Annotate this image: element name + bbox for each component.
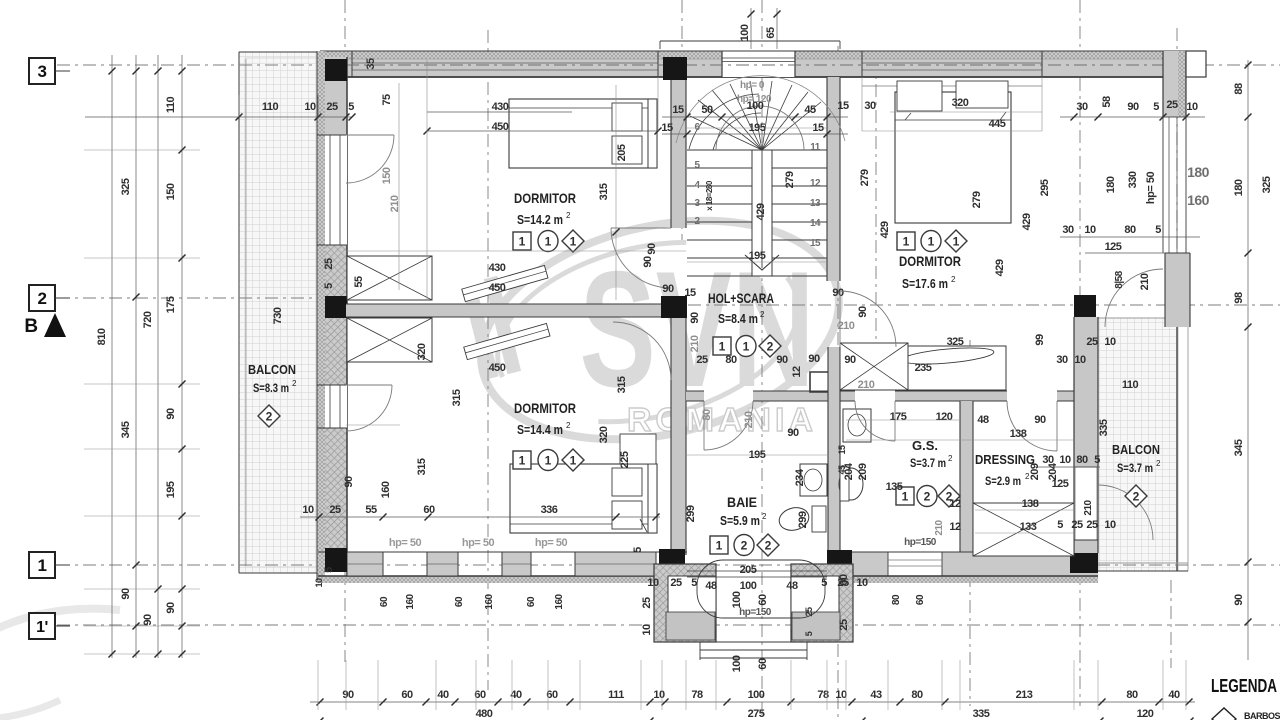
svg-text:10: 10 bbox=[641, 624, 653, 636]
svg-text:5: 5 bbox=[1155, 224, 1161, 236]
svg-text:150: 150 bbox=[381, 167, 393, 184]
svg-text:336: 336 bbox=[541, 504, 558, 516]
svg-text:35: 35 bbox=[365, 58, 377, 70]
svg-text:hp= 50: hp= 50 bbox=[1145, 172, 1157, 205]
svg-text:88: 88 bbox=[1233, 83, 1245, 95]
svg-text:80: 80 bbox=[1076, 454, 1088, 466]
svg-text:25: 25 bbox=[1166, 99, 1178, 111]
wardrobe X right bedroom bbox=[840, 343, 908, 390]
desk right bedroom bbox=[896, 346, 1006, 390]
svg-text:12: 12 bbox=[791, 366, 803, 378]
svg-text:325: 325 bbox=[1261, 176, 1273, 193]
svg-text:15: 15 bbox=[810, 238, 821, 249]
svg-text:120: 120 bbox=[1137, 708, 1154, 720]
right mid door dims bbox=[1035, 466, 1100, 468]
svg-text:45: 45 bbox=[804, 104, 816, 116]
svg-text:335: 335 bbox=[973, 708, 990, 720]
svg-text:450: 450 bbox=[489, 362, 506, 374]
svg-text:810: 810 bbox=[96, 328, 108, 345]
svg-text:DORMITOR: DORMITOR bbox=[514, 400, 576, 416]
svg-text:80: 80 bbox=[1126, 689, 1138, 701]
svg-text:315: 315 bbox=[451, 389, 463, 406]
svg-text:1: 1 bbox=[716, 539, 723, 553]
svg-text:335: 335 bbox=[1098, 419, 1110, 436]
svg-text:5: 5 bbox=[1057, 519, 1063, 531]
svg-text:hp=150: hp=150 bbox=[904, 537, 937, 548]
svg-text:S=5.9 m: S=5.9 m bbox=[720, 513, 760, 528]
top entrance dims bbox=[750, 8, 752, 49]
svg-text:430: 430 bbox=[489, 262, 506, 274]
hol dims bbox=[662, 116, 848, 118]
svg-text:5: 5 bbox=[1094, 454, 1100, 466]
svg-text:B: B bbox=[24, 316, 37, 337]
svg-text:204: 204 bbox=[1047, 462, 1059, 480]
svg-text:160: 160 bbox=[405, 593, 416, 609]
svg-text:10: 10 bbox=[653, 689, 665, 701]
svg-text:90: 90 bbox=[343, 476, 355, 488]
svg-text:90: 90 bbox=[142, 614, 154, 626]
svg-text:138: 138 bbox=[1010, 428, 1027, 440]
svg-text:429: 429 bbox=[994, 259, 1006, 276]
svg-text:100: 100 bbox=[740, 580, 757, 592]
svg-text:10: 10 bbox=[1084, 224, 1096, 236]
mid horizontal wall (between left bedrooms) bbox=[346, 304, 661, 317]
svg-text:80: 80 bbox=[1124, 224, 1136, 236]
svg-text:25: 25 bbox=[326, 101, 338, 113]
grid markers bbox=[29, 58, 55, 84]
svg-text:30: 30 bbox=[1062, 224, 1074, 236]
svg-text:8|58: 8|58 bbox=[1114, 270, 1125, 288]
svg-text:LEGENDA: LEGENDA bbox=[1211, 676, 1277, 696]
svg-text:40: 40 bbox=[437, 689, 449, 701]
svg-text:315: 315 bbox=[616, 376, 628, 393]
svg-text:175: 175 bbox=[165, 296, 177, 313]
gs fixtures bbox=[843, 409, 871, 442]
svg-text:90: 90 bbox=[689, 312, 701, 324]
svg-text:80: 80 bbox=[891, 594, 902, 605]
svg-text:90: 90 bbox=[844, 354, 856, 366]
svg-text:429: 429 bbox=[879, 221, 891, 238]
svg-text:1: 1 bbox=[519, 454, 526, 468]
svg-text:1: 1 bbox=[570, 235, 577, 249]
svg-text:320: 320 bbox=[598, 426, 610, 443]
right upper door dims bbox=[1060, 236, 1200, 238]
wall baie/gs vertical bbox=[828, 347, 840, 555]
svg-text:133: 133 bbox=[1020, 521, 1037, 533]
top exterior wall bbox=[320, 51, 1186, 59]
svg-text:180: 180 bbox=[1233, 179, 1245, 196]
svg-text:25: 25 bbox=[804, 607, 814, 617]
svg-text:10: 10 bbox=[304, 101, 316, 113]
svg-text:1: 1 bbox=[545, 454, 552, 468]
svg-text:60: 60 bbox=[379, 596, 390, 607]
svg-text:48: 48 bbox=[786, 580, 798, 592]
svg-text:2: 2 bbox=[1133, 490, 1140, 504]
svg-text:5: 5 bbox=[804, 631, 814, 636]
svg-text:330: 330 bbox=[1127, 171, 1139, 188]
porch bottom walls bbox=[654, 564, 716, 642]
svg-text:279: 279 bbox=[784, 171, 796, 188]
svg-text:195: 195 bbox=[749, 250, 766, 262]
svg-text:2: 2 bbox=[38, 289, 47, 308]
svg-text:S=14.2 m: S=14.2 m bbox=[517, 212, 563, 227]
svg-text:10: 10 bbox=[1074, 354, 1086, 366]
svg-text:320: 320 bbox=[416, 343, 428, 360]
svg-text:90: 90 bbox=[1034, 414, 1046, 426]
svg-text:2: 2 bbox=[951, 275, 956, 284]
svg-text:5: 5 bbox=[323, 567, 335, 573]
svg-text:299: 299 bbox=[685, 505, 697, 522]
svg-text:10: 10 bbox=[1186, 101, 1198, 113]
svg-text:1: 1 bbox=[902, 490, 909, 504]
svg-text:195: 195 bbox=[165, 481, 177, 498]
svg-text:160: 160 bbox=[484, 593, 495, 609]
bottom wall right part bbox=[840, 552, 1098, 576]
svg-text:60: 60 bbox=[757, 658, 769, 670]
bed bedroom3 (right) bbox=[862, 85, 1042, 87]
svg-text:135: 135 bbox=[886, 481, 903, 493]
svg-text:10: 10 bbox=[1104, 519, 1116, 531]
svg-text:279: 279 bbox=[971, 191, 983, 208]
svg-text:429: 429 bbox=[1021, 213, 1033, 230]
svg-text:80: 80 bbox=[911, 689, 923, 701]
svg-text:1: 1 bbox=[928, 235, 935, 249]
svg-text:2: 2 bbox=[765, 539, 772, 553]
svg-text:90: 90 bbox=[1127, 101, 1139, 113]
svg-text:hp= 0: hp= 0 bbox=[740, 80, 765, 91]
svg-text:25: 25 bbox=[641, 597, 653, 609]
columns interior left bbox=[663, 57, 687, 80]
svg-text:2: 2 bbox=[741, 539, 748, 553]
svg-text:BALCON: BALCON bbox=[1112, 442, 1160, 457]
svg-text:60: 60 bbox=[401, 689, 413, 701]
interior wall left vertical bbox=[671, 80, 686, 228]
svg-text:209: 209 bbox=[857, 463, 869, 480]
svg-text:110: 110 bbox=[1122, 379, 1139, 391]
svg-text:90: 90 bbox=[165, 602, 177, 614]
svg-text:234: 234 bbox=[794, 468, 806, 486]
svg-text:60: 60 bbox=[757, 594, 769, 606]
svg-text:100: 100 bbox=[731, 655, 743, 672]
svg-text:225: 225 bbox=[619, 451, 631, 468]
svg-text:13: 13 bbox=[810, 198, 821, 209]
svg-text:90: 90 bbox=[642, 256, 654, 268]
svg-text:30: 30 bbox=[1076, 101, 1088, 113]
svg-text:25: 25 bbox=[670, 577, 682, 589]
svg-text:BAIE: BAIE bbox=[727, 494, 757, 510]
svg-text:1': 1' bbox=[36, 619, 48, 636]
svg-text:78: 78 bbox=[691, 689, 703, 701]
svg-text:1: 1 bbox=[903, 235, 910, 249]
svg-text:210: 210 bbox=[934, 519, 945, 535]
svg-text:2: 2 bbox=[767, 340, 774, 354]
svg-text:150: 150 bbox=[165, 183, 177, 200]
svg-text:15: 15 bbox=[837, 445, 847, 455]
svg-text:120: 120 bbox=[936, 411, 953, 423]
left dim chains bbox=[111, 55, 113, 658]
svg-text:5: 5 bbox=[348, 101, 354, 113]
svg-text:345: 345 bbox=[1233, 439, 1245, 456]
svg-text:25: 25 bbox=[696, 354, 708, 366]
svg-text:14: 14 bbox=[810, 218, 821, 229]
svg-text:75: 75 bbox=[381, 94, 393, 106]
svg-text:235: 235 bbox=[915, 362, 932, 374]
svg-text:x 18=280: x 18=280 bbox=[705, 180, 714, 211]
svg-text:DORMITOR: DORMITOR bbox=[514, 190, 576, 206]
svg-text:10: 10 bbox=[314, 578, 324, 588]
svg-text:204: 204 bbox=[843, 462, 855, 480]
svg-text:S=3.7 m: S=3.7 m bbox=[910, 456, 946, 470]
svg-text:720: 720 bbox=[142, 311, 154, 328]
svg-text:10: 10 bbox=[835, 689, 847, 701]
stairs bbox=[687, 149, 827, 151]
svg-text:1: 1 bbox=[519, 235, 526, 249]
svg-text:48: 48 bbox=[705, 580, 717, 592]
svg-text:3: 3 bbox=[38, 62, 47, 81]
svg-text:10: 10 bbox=[1104, 336, 1116, 348]
left exterior wall bbox=[317, 51, 325, 580]
svg-text:10: 10 bbox=[647, 577, 659, 589]
svg-text:100: 100 bbox=[739, 24, 751, 41]
svg-text:315: 315 bbox=[598, 183, 610, 200]
svg-text:180: 180 bbox=[1187, 164, 1210, 180]
svg-text:10: 10 bbox=[1059, 454, 1071, 466]
svg-text:210: 210 bbox=[1139, 273, 1151, 290]
svg-text:43: 43 bbox=[870, 689, 882, 701]
svg-text:2: 2 bbox=[762, 512, 767, 521]
svg-text:110: 110 bbox=[262, 101, 279, 113]
right edge dim chain bbox=[1247, 60, 1249, 660]
svg-text:50: 50 bbox=[701, 104, 713, 116]
top right dims bbox=[1060, 116, 1205, 118]
svg-text:480: 480 bbox=[476, 708, 493, 720]
svg-text:hp= 50: hp= 50 bbox=[535, 537, 568, 549]
balcony left tile bbox=[239, 52, 317, 573]
svg-text:90: 90 bbox=[857, 306, 869, 318]
svg-text:429: 429 bbox=[755, 203, 767, 220]
svg-text:2: 2 bbox=[924, 490, 931, 504]
svg-text:DORMITOR: DORMITOR bbox=[899, 253, 961, 269]
axis lines bbox=[344, 0, 346, 662]
svg-text:175: 175 bbox=[890, 411, 907, 423]
svg-text:299: 299 bbox=[797, 511, 809, 528]
svg-text:110: 110 bbox=[165, 96, 177, 113]
svg-text:2: 2 bbox=[1156, 459, 1161, 468]
svg-text:48: 48 bbox=[977, 414, 989, 426]
baie fixtures bbox=[777, 504, 812, 533]
svg-text:60: 60 bbox=[526, 596, 537, 607]
svg-text:90: 90 bbox=[808, 353, 820, 365]
svg-text:315: 315 bbox=[416, 458, 428, 475]
svg-text:160: 160 bbox=[1187, 192, 1210, 208]
svg-text:325: 325 bbox=[947, 336, 964, 348]
svg-text:275: 275 bbox=[748, 708, 765, 720]
left wall columns bbox=[325, 59, 347, 81]
nightstand bedroom2 bbox=[620, 434, 656, 464]
svg-text:1: 1 bbox=[545, 235, 552, 249]
balcony right tile bbox=[1098, 318, 1178, 571]
svg-text:12: 12 bbox=[810, 178, 821, 189]
extra extension lines rooms bbox=[398, 83, 400, 290]
svg-text:1: 1 bbox=[570, 454, 577, 468]
svg-text:11: 11 bbox=[810, 142, 821, 153]
wardrobe X dressing bbox=[973, 503, 1074, 556]
svg-text:90: 90 bbox=[120, 588, 132, 600]
svg-text:213: 213 bbox=[1016, 689, 1033, 701]
svg-text:279: 279 bbox=[859, 169, 871, 186]
svg-text:25: 25 bbox=[323, 258, 335, 270]
svg-text:2: 2 bbox=[266, 410, 273, 424]
svg-text:12: 12 bbox=[949, 498, 961, 510]
svg-text:2: 2 bbox=[948, 454, 953, 463]
svg-text:S=14.4 m: S=14.4 m bbox=[517, 422, 563, 437]
svg-text:430: 430 bbox=[492, 101, 509, 113]
svg-text:1: 1 bbox=[953, 235, 960, 249]
svg-text:S=17.6 m: S=17.6 m bbox=[902, 276, 948, 291]
svg-text:15: 15 bbox=[684, 287, 696, 299]
svg-text:hp= 50: hp= 50 bbox=[462, 537, 495, 549]
svg-text:25: 25 bbox=[838, 619, 850, 631]
door arcs bbox=[346, 135, 394, 183]
svg-text:40: 40 bbox=[1168, 689, 1180, 701]
svg-text:15: 15 bbox=[672, 104, 684, 116]
svg-text:2: 2 bbox=[292, 379, 297, 388]
svg-text:160: 160 bbox=[554, 593, 565, 609]
svg-text:99: 99 bbox=[1034, 334, 1046, 346]
wall gs/dressing vertical bbox=[960, 401, 973, 556]
stair right wall bbox=[827, 77, 840, 281]
svg-text:90: 90 bbox=[776, 354, 788, 366]
bed bedroom2 bbox=[510, 464, 657, 533]
svg-text:210: 210 bbox=[1083, 499, 1094, 515]
svg-text:BALCON: BALCON bbox=[248, 362, 296, 377]
svg-text:138: 138 bbox=[1022, 498, 1039, 510]
svg-text:30: 30 bbox=[1056, 354, 1068, 366]
right mid wall bbox=[1074, 317, 1098, 553]
svg-text:S=3.7 m: S=3.7 m bbox=[1117, 461, 1153, 475]
svg-text:hp=150: hp=150 bbox=[739, 607, 772, 618]
svg-text:730: 730 bbox=[272, 307, 284, 324]
svg-text:HOL+SCARA: HOL+SCARA bbox=[708, 290, 774, 306]
svg-text:12: 12 bbox=[949, 521, 961, 533]
svg-text:209: 209 bbox=[1029, 463, 1041, 480]
right wall upper bbox=[1163, 51, 1178, 117]
svg-text:5: 5 bbox=[323, 283, 335, 289]
horizontal wall hol/baie/gs bbox=[686, 391, 704, 401]
svg-text:5: 5 bbox=[691, 577, 697, 589]
svg-text:BARBOS: BARBOS bbox=[1244, 711, 1280, 720]
svg-text:1: 1 bbox=[38, 556, 47, 575]
svg-text:15: 15 bbox=[837, 100, 849, 112]
svg-text:S=8.3 m: S=8.3 m bbox=[253, 381, 289, 395]
svg-text:S=2.9 m: S=2.9 m bbox=[985, 474, 1021, 488]
svg-text:60: 60 bbox=[838, 574, 850, 586]
svg-text:60: 60 bbox=[915, 594, 926, 605]
svg-text:345: 345 bbox=[120, 421, 132, 438]
shelf items bbox=[462, 265, 548, 301]
svg-text:60: 60 bbox=[423, 504, 435, 516]
svg-text:180: 180 bbox=[1105, 176, 1117, 193]
svg-text:5: 5 bbox=[632, 547, 644, 553]
svg-text:30: 30 bbox=[864, 100, 876, 112]
svg-text:hp= 120: hp= 120 bbox=[737, 94, 772, 105]
svg-text:10: 10 bbox=[302, 504, 314, 516]
svg-text:25: 25 bbox=[1086, 336, 1098, 348]
svg-text:90: 90 bbox=[342, 689, 354, 701]
svg-text:80: 80 bbox=[701, 409, 713, 421]
svg-text:1: 1 bbox=[719, 340, 726, 354]
svg-text:25: 25 bbox=[1071, 519, 1083, 531]
svg-text:hp= 50: hp= 50 bbox=[389, 537, 422, 549]
svg-text:90: 90 bbox=[165, 408, 177, 420]
svg-text:450: 450 bbox=[489, 282, 506, 294]
svg-text:320: 320 bbox=[952, 97, 969, 109]
bottom dim rows bbox=[310, 701, 1195, 703]
svg-text:2: 2 bbox=[760, 310, 765, 319]
svg-text:25: 25 bbox=[329, 504, 341, 516]
svg-text:2: 2 bbox=[566, 211, 571, 220]
svg-text:90: 90 bbox=[1233, 594, 1245, 606]
svg-text:325: 325 bbox=[120, 178, 132, 195]
svg-text:58: 58 bbox=[1101, 96, 1113, 108]
svg-text:111: 111 bbox=[608, 689, 624, 701]
svg-text:DRESSING: DRESSING bbox=[975, 452, 1035, 467]
svg-text:210: 210 bbox=[689, 335, 701, 352]
svg-text:90: 90 bbox=[832, 287, 844, 299]
svg-text:55: 55 bbox=[365, 504, 377, 516]
svg-text:S=8.4 m: S=8.4 m bbox=[718, 311, 758, 326]
watermark partial corner bbox=[0, 609, 120, 720]
svg-text:100: 100 bbox=[748, 689, 765, 701]
svg-text:5: 5 bbox=[821, 577, 827, 589]
svg-text:210: 210 bbox=[743, 411, 755, 428]
svg-text:100: 100 bbox=[731, 591, 743, 608]
svg-text:98: 98 bbox=[1233, 292, 1245, 304]
svg-text:205: 205 bbox=[740, 564, 757, 576]
svg-text:90: 90 bbox=[646, 243, 658, 255]
wardrobe X boxes bedroom1 bbox=[347, 256, 432, 300]
svg-text:445: 445 bbox=[989, 118, 1006, 130]
svg-text:10: 10 bbox=[856, 577, 868, 589]
svg-text:90: 90 bbox=[662, 283, 674, 295]
svg-text:160: 160 bbox=[380, 481, 392, 498]
svg-text:295: 295 bbox=[1039, 179, 1051, 196]
svg-text:205: 205 bbox=[616, 144, 628, 161]
svg-text:80: 80 bbox=[725, 354, 737, 366]
svg-text:125: 125 bbox=[1105, 241, 1122, 253]
svg-text:90: 90 bbox=[787, 427, 799, 439]
svg-text:55: 55 bbox=[353, 276, 365, 288]
svg-text:210: 210 bbox=[858, 379, 875, 391]
svg-text:1: 1 bbox=[743, 340, 750, 354]
svg-text:5: 5 bbox=[1153, 101, 1159, 113]
svg-text:60: 60 bbox=[454, 596, 465, 607]
svg-text:15: 15 bbox=[661, 122, 673, 134]
svg-text:2: 2 bbox=[566, 421, 571, 430]
svg-text:65: 65 bbox=[765, 27, 777, 39]
svg-text:25: 25 bbox=[1086, 519, 1098, 531]
watermark SVN ROMANIA bbox=[459, 188, 860, 473]
bottom wall left part bbox=[318, 576, 687, 583]
bed bedroom1 bbox=[509, 99, 657, 168]
